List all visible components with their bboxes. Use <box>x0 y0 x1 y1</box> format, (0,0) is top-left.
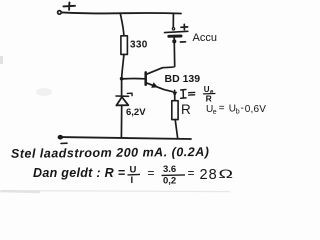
svg-text:b: b <box>236 109 240 116</box>
svg-text:0,2: 0,2 <box>163 176 176 187</box>
svg-text:0,6V: 0,6V <box>245 104 267 115</box>
svg-text:=: = <box>188 166 195 180</box>
svg-text:Dan geldt : R =: Dan geldt : R = <box>33 166 126 180</box>
svg-text:U: U <box>130 165 137 176</box>
svg-text:=: = <box>219 103 225 114</box>
svg-text:6,2V: 6,2V <box>126 107 146 118</box>
svg-text:R: R <box>181 102 191 117</box>
svg-text:3.6: 3.6 <box>163 164 176 175</box>
svg-text:R: R <box>206 94 212 104</box>
svg-text:Accu: Accu <box>193 32 217 44</box>
svg-text:BD 139: BD 139 <box>165 73 201 85</box>
svg-text:I: I <box>131 175 134 186</box>
svg-text:Stel laadstroom 200 mA. (0.2A): Stel laadstroom 200 mA. (0.2A) <box>11 145 210 161</box>
svg-text:e: e <box>213 109 217 116</box>
svg-text:Ω: Ω <box>219 168 234 181</box>
svg-text:330: 330 <box>130 40 148 51</box>
svg-text:-: - <box>241 103 244 114</box>
svg-text:=: = <box>148 166 155 180</box>
svg-text:28: 28 <box>200 167 218 183</box>
